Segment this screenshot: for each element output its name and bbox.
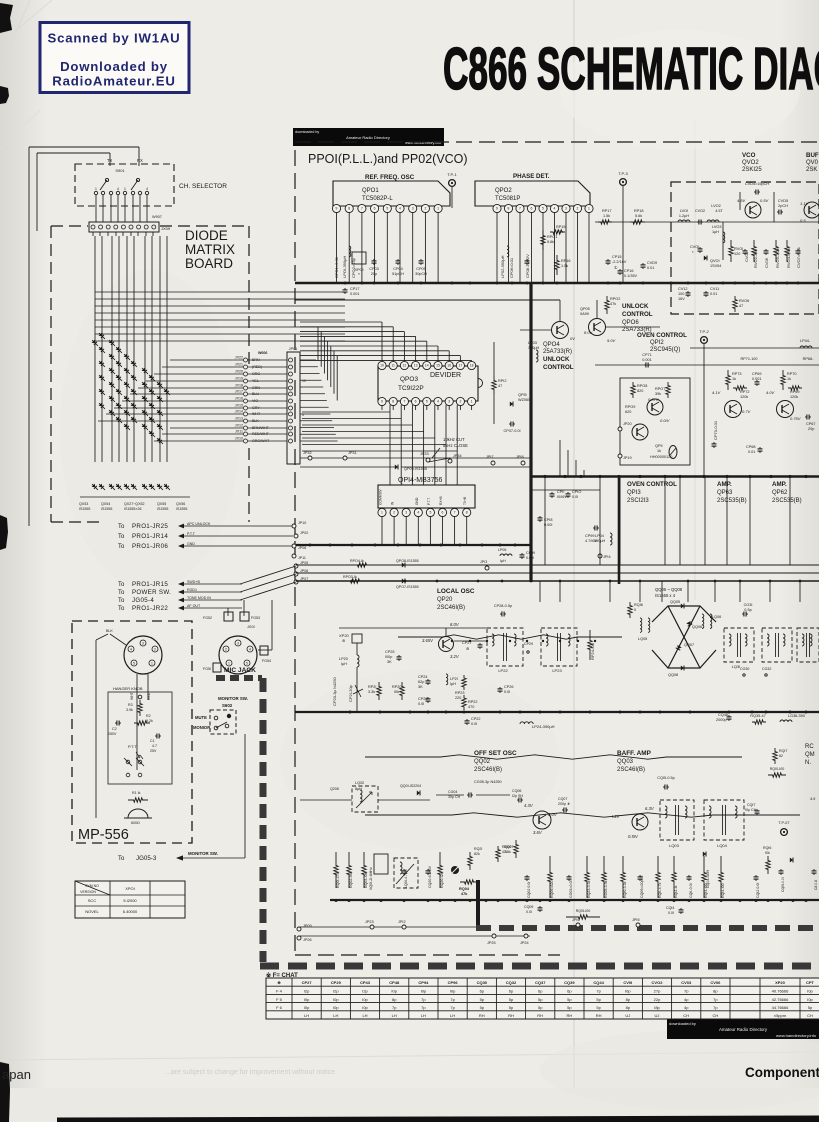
svg-text:GND: GND (415, 497, 419, 505)
svg-text:QX53: QX53 (79, 502, 88, 506)
svg-text:CV12: CV12 (678, 287, 688, 291)
svg-text:RPI2: RPI2 (498, 379, 506, 383)
svg-text:RQ23-3.3k: RQ23-3.3k (587, 880, 591, 898)
svg-text:Scanned by IW1AU: Scanned by IW1AU (48, 31, 181, 46)
svg-text:1: 1 (588, 207, 590, 211)
svg-text:RC: RC (805, 744, 814, 750)
svg-text:LH: LH (333, 1013, 338, 1018)
svg-text:QPII: QPII (655, 444, 663, 448)
svg-text:To: To (118, 534, 125, 540)
svg-text:C1: C1 (150, 739, 155, 743)
svg-text:2: 2 (154, 647, 156, 651)
svg-text:QQ05 ~ QQ08: QQ05 ~ QQ08 (655, 587, 683, 592)
svg-text:2: 2 (424, 207, 426, 211)
svg-text:4: 4 (437, 400, 439, 404)
svg-text:0.0I: 0.0I (471, 722, 477, 726)
svg-text:RP24-I00: RP24-I00 (590, 642, 595, 660)
svg-text:390μH: 390μH (528, 346, 540, 350)
svg-text:2SC46I(B): 2SC46I(B) (437, 605, 465, 611)
svg-text:47: 47 (739, 304, 743, 308)
svg-text:47k: 47k (502, 850, 508, 854)
svg-text:MONITOR SW.: MONITOR SW. (188, 851, 218, 856)
svg-text:FG53: FG53 (251, 616, 260, 620)
svg-text:To: To (118, 590, 125, 596)
svg-text:CQ30: CQ30 (477, 980, 488, 985)
svg-text:20p: 20p (371, 272, 377, 276)
svg-text:CH. SELECTOR: CH. SELECTOR (179, 183, 227, 190)
svg-text:CH: CH (683, 1013, 689, 1018)
svg-text:1k: 1k (732, 377, 736, 381)
svg-text:⊛: ⊛ (466, 647, 469, 651)
svg-text:51pCH: 51pCH (392, 272, 404, 276)
svg-text:To: To (118, 856, 125, 862)
svg-text:CP69: CP69 (752, 372, 762, 376)
svg-text:0.0I: 0.0I (572, 495, 578, 499)
svg-text:1.1V: 1.1V (800, 201, 809, 206)
svg-text:QV0: QV0 (806, 160, 819, 166)
svg-text:8: 8 (508, 207, 510, 211)
svg-text:CP67: CP67 (806, 422, 816, 426)
svg-text:BAFF. AMP: BAFF. AMP (617, 750, 652, 757)
svg-text:JPI3: JPI3 (480, 560, 487, 564)
svg-text:BOARD: BOARD (185, 256, 233, 271)
svg-text:RP22: RP22 (468, 700, 478, 704)
svg-text:JPI6: JPI6 (572, 918, 580, 922)
svg-text:3.0V: 3.0V (548, 812, 558, 817)
svg-text:CVD9: CVD9 (647, 261, 657, 265)
svg-text:CP22: CP22 (471, 717, 481, 721)
svg-text:4: 4 (417, 511, 419, 515)
svg-text:5p: 5p (596, 1005, 601, 1010)
svg-text:P.T.T: P.T.T (187, 532, 196, 536)
svg-text:0.01: 0.01 (647, 266, 654, 270)
svg-text:6p: 6p (538, 989, 543, 994)
svg-text:4.7: 4.7 (152, 744, 157, 748)
svg-text:R1 Ik: R1 Ik (132, 791, 141, 795)
svg-text:CVD5: CVD5 (778, 199, 788, 203)
svg-text:1SV54: 1SV54 (710, 264, 721, 268)
svg-text:CQI2 0.0I: CQI2 0.0I (756, 883, 760, 898)
svg-text:CP05: CP05 (416, 267, 426, 271)
svg-text:JP23: JP23 (365, 920, 374, 924)
svg-text:RP23: RP23 (455, 691, 465, 695)
svg-text:OVEN CONTROL: OVEN CONTROL (637, 332, 687, 339)
svg-text:I00p: I00p (385, 655, 392, 659)
svg-text:IS1555: IS1555 (176, 507, 187, 511)
svg-text:1: 1 (381, 511, 383, 515)
svg-text:QQ06: QQ06 (692, 625, 702, 629)
svg-text:IμH: IμH (341, 662, 347, 666)
svg-text:QPO2: QPO2 (495, 188, 512, 194)
svg-text:CP2I-20p: CP2I-20p (348, 684, 353, 702)
svg-text:820: 820 (637, 389, 643, 393)
svg-text:R3: R3 (128, 703, 133, 707)
svg-text:47k: 47k (610, 302, 616, 306)
svg-text:5: 5 (426, 400, 428, 404)
svg-text:...are subject to change for i: ...are subject to change for improvement… (165, 1069, 337, 1076)
svg-text:LH: LH (304, 1013, 309, 1018)
svg-text:To: To (118, 544, 125, 550)
svg-text:CQ09=I20p ⑧: CQ09=I20p ⑧ (640, 875, 644, 898)
svg-text:JP26: JP26 (303, 938, 312, 942)
svg-text:RH: RH (567, 1013, 573, 1018)
svg-text:CP94: CP94 (418, 980, 429, 985)
svg-text:3: 3 (237, 641, 239, 645)
svg-text:2: 2 (225, 647, 227, 651)
svg-text:RP71-100: RP71-100 (740, 357, 757, 361)
svg-text:I0k: I0k (765, 851, 770, 855)
svg-text:WZ065: WZ065 (518, 398, 530, 402)
svg-text:LVO2: LVO2 (711, 204, 720, 208)
svg-text:P.T.T: P.T.T (128, 744, 137, 749)
svg-text:CG3I: CG3I (744, 603, 753, 607)
svg-text:CP17: CP17 (350, 287, 360, 291)
svg-text:I0p: I0p (625, 989, 631, 994)
svg-text:1: 1 (228, 661, 230, 665)
svg-text:BUF: BUF (806, 152, 819, 159)
svg-text:CP26: CP26 (504, 685, 514, 689)
svg-text:8: 8 (392, 400, 394, 404)
svg-text:DIODE: DIODE (185, 228, 228, 243)
svg-text:8.2k: 8.2k (146, 719, 153, 723)
svg-text:HH00000120: HH00000120 (650, 455, 672, 459)
svg-text:17: 17 (459, 364, 463, 368)
svg-text:COMM BV: COMM BV (379, 488, 383, 505)
svg-text:CP04: CP04 (393, 267, 403, 271)
svg-text:2SC46I(B): 2SC46I(B) (617, 767, 645, 773)
svg-text:82k: 82k (474, 852, 480, 856)
svg-text:QQ08: QQ08 (668, 673, 678, 677)
svg-text:JP10: JP10 (298, 521, 306, 525)
svg-text:I/50V: I/50V (108, 732, 117, 736)
svg-text:3: 3 (405, 511, 407, 515)
svg-text:I0p: I0p (391, 989, 397, 994)
svg-text:5p: 5p (538, 1005, 543, 1010)
svg-text:3.6V: 3.6V (533, 830, 543, 835)
svg-text:CG05-3p N4250: CG05-3p N4250 (474, 780, 502, 784)
svg-text:14: 14 (425, 364, 429, 368)
svg-text:18: 18 (470, 364, 474, 368)
svg-text:JX11: JX11 (235, 430, 243, 434)
svg-text:5.I2000: 5.I2000 (123, 898, 137, 903)
svg-text:PRO1-JR15: PRO1-JR15 (132, 581, 168, 588)
svg-text:I0p: I0p (333, 1005, 339, 1010)
svg-text:JP31: JP31 (348, 451, 357, 455)
svg-text:RQII-4.7k: RQII-4.7k (658, 882, 662, 898)
svg-text:0.0I: 0.0I (418, 702, 424, 706)
svg-text:CH: CH (713, 1013, 719, 1018)
svg-text:6: 6 (442, 511, 444, 515)
svg-text:HANGER KNOB: HANGER KNOB (113, 686, 143, 691)
svg-text:LP04: LP04 (595, 534, 604, 538)
svg-text:QPO1: QPO1 (362, 188, 379, 194)
svg-text:4: 4 (117, 187, 119, 191)
svg-text:MATRIX: MATRIX (185, 242, 235, 257)
svg-text:220: 220 (455, 696, 461, 700)
svg-text:QX27~QX52: QX27~QX52 (124, 502, 144, 506)
svg-text:Downloaded by: Downloaded by (60, 59, 168, 74)
svg-text:22p: 22p (654, 997, 661, 1002)
svg-text:-2.2/16V: -2.2/16V (612, 260, 627, 264)
svg-text:QP05: QP05 (580, 307, 590, 311)
svg-text:RP18: RP18 (634, 209, 644, 213)
svg-text:UNLOCK: UNLOCK (622, 303, 649, 310)
svg-text:JX19: JX19 (235, 377, 243, 381)
svg-text:JX18: JX18 (235, 384, 243, 388)
svg-text:CQ39: CQ39 (564, 980, 575, 985)
svg-text:QX56: QX56 (176, 502, 185, 506)
svg-text:QX55: QX55 (157, 502, 166, 506)
svg-text:JX13: JX13 (235, 417, 243, 421)
svg-text:LVOI: LVOI (680, 209, 688, 213)
svg-text:0.01: 0.01 (710, 292, 717, 296)
svg-text:CPT: CPT (806, 980, 815, 985)
svg-text:3: 3 (412, 207, 414, 211)
svg-text:I0p: I0p (807, 997, 813, 1002)
svg-text:RPO7: RPO7 (655, 387, 665, 391)
svg-text:RQI6: RQI6 (763, 846, 771, 850)
svg-text:RH: RH (508, 1013, 514, 1018)
svg-text:1: 1 (151, 661, 153, 665)
svg-text:downloaded by: downloaded by (669, 1021, 696, 1026)
svg-text:8p: 8p (713, 989, 718, 994)
svg-text:IS1555: IS1555 (157, 507, 168, 511)
svg-text:JX16: JX16 (235, 397, 243, 401)
svg-text:CQ20-6.8/I6V: CQ20-6.8/I6V (428, 865, 432, 888)
svg-text:XP20: XP20 (339, 633, 350, 638)
svg-text:RQ05: RQ05 (502, 845, 511, 849)
svg-text:1k: 1k (657, 449, 661, 453)
svg-text:PPOI(P.L.L.)and PP02(VCO): PPOI(P.L.L.)and PP02(VCO) (308, 152, 468, 166)
svg-text:CP27: CP27 (302, 980, 313, 985)
svg-text:2SKI25: 2SKI25 (742, 167, 762, 173)
svg-text:7p: 7p (684, 989, 689, 994)
svg-text:①: ① (614, 266, 618, 270)
svg-text:TONE MOD IN: TONE MOD IN (187, 596, 211, 600)
svg-text:CV0I: CV0I (623, 980, 632, 985)
svg-text:RH: RH (537, 1013, 543, 1018)
svg-text:CP25: CP25 (385, 650, 395, 654)
svg-text:6: 6 (415, 400, 417, 404)
svg-text:LP44-: LP44- (800, 339, 811, 343)
svg-text:LPOI-390μH: LPOI-390μH (342, 256, 347, 278)
svg-text:AMP.: AMP. (772, 481, 787, 488)
svg-text:SWD+B: SWD+B (187, 580, 200, 584)
svg-text:QVOI: QVOI (710, 259, 720, 263)
svg-text:42.76666: 42.76666 (772, 997, 789, 1002)
svg-text:5: 5 (386, 207, 388, 211)
svg-text:12: 12 (403, 364, 407, 368)
svg-text:5: 5 (542, 207, 544, 211)
svg-text:SYM NO: SYM NO (85, 884, 99, 888)
svg-text:CG30: CG30 (740, 667, 749, 671)
svg-text:120k: 120k (740, 395, 748, 399)
svg-text:CQI4: CQI4 (666, 906, 674, 910)
svg-text:QQ05: QQ05 (670, 600, 680, 604)
svg-text:100: 100 (678, 292, 684, 296)
svg-text:RQI0-I00: RQI0-I00 (770, 767, 785, 771)
svg-text:0: 0 (634, 608, 636, 612)
svg-text:82: 82 (779, 754, 783, 758)
svg-text:C866 SCHEMATIC DIAG: C866 SCHEMATIC DIAG (443, 36, 819, 102)
svg-text:QPO3: QPO3 (400, 376, 418, 383)
svg-text:RQ0I-47k: RQ0I-47k (336, 872, 340, 888)
svg-text:RVOI: RVOI (734, 247, 743, 251)
svg-text:LH: LH (362, 1013, 367, 1018)
svg-text:5p: 5p (538, 997, 543, 1002)
svg-text:UNLOCK: UNLOCK (543, 356, 570, 363)
svg-text:JP24: JP24 (520, 941, 529, 945)
svg-text:9: 9 (496, 207, 498, 211)
svg-text:5p: 5p (596, 997, 601, 1002)
svg-text:LP2I: LP2I (450, 677, 458, 681)
svg-text:LOCAL OSC: LOCAL OSC (437, 588, 475, 595)
svg-text:13: 13 (414, 364, 418, 368)
svg-text:MONITOR SW.: MONITOR SW. (218, 696, 248, 701)
svg-text:RP15: RP15 (556, 225, 566, 229)
svg-text:QQ07: QQ07 (684, 643, 694, 647)
svg-text:30p CH: 30p CH (448, 795, 461, 799)
svg-text:FG52: FG52 (203, 616, 212, 620)
svg-text:200p ⑧: 200p ⑧ (558, 802, 571, 806)
svg-text:LP02-390μH: LP02-390μH (500, 255, 505, 278)
svg-text:LQ05: LQ05 (638, 637, 647, 641)
svg-text:8: 8 (348, 207, 350, 211)
svg-text:JP32: JP32 (303, 451, 312, 455)
svg-text:RQI6: RQI6 (634, 603, 643, 607)
svg-text:RQI5-I00: RQI5-I00 (576, 909, 591, 913)
svg-text:JP33: JP33 (420, 452, 429, 456)
svg-text:JPI7: JPI7 (486, 455, 494, 459)
svg-text:RadioAmateur.EU: RadioAmateur.EU (52, 74, 175, 89)
svg-text:CONTROL: CONTROL (622, 311, 653, 318)
svg-text:2SC535(B): 2SC535(B) (717, 498, 747, 504)
svg-text:10: 10 (302, 379, 306, 383)
svg-text:RQ20-I2k: RQ20-I2k (440, 872, 444, 888)
svg-text:47: 47 (498, 384, 502, 388)
svg-text:I0p: I0p (807, 989, 813, 994)
svg-text:RQI7: RQI7 (779, 749, 787, 753)
svg-text:JP09: JP09 (303, 924, 312, 928)
svg-text:2SC46I(B): 2SC46I(B) (474, 767, 502, 773)
svg-text:To: To (118, 606, 125, 612)
svg-text:RP17: RP17 (602, 209, 612, 213)
svg-text:1μH: 1μH (712, 230, 719, 234)
svg-text:To: To (118, 582, 125, 588)
svg-text:2: 2 (393, 511, 395, 515)
svg-text:I0p: I0p (362, 997, 368, 1002)
svg-text:4.5V: 4.5V (737, 198, 746, 203)
svg-text:IS1555 x 4: IS1555 x 4 (655, 593, 676, 598)
svg-text:0.001: 0.001 (642, 358, 652, 362)
svg-text:4p: 4p (684, 997, 689, 1002)
svg-text:JX20: JX20 (235, 370, 243, 374)
svg-text:MIC JACK: MIC JACK (224, 667, 256, 674)
svg-text:JG05-4: JG05-4 (132, 597, 154, 604)
svg-text:CVD4=15pCH: CVD4=15pCH (745, 182, 769, 186)
svg-text:7: 7 (454, 511, 456, 515)
svg-text:RP68-: RP68- (803, 357, 814, 361)
svg-text:QM: QM (805, 752, 815, 758)
svg-text:CQ32: CQ32 (506, 980, 517, 985)
svg-text:CVOI: CVOI (690, 245, 699, 249)
svg-text:3: 3 (142, 641, 144, 645)
svg-text:LP03: LP03 (528, 341, 537, 345)
svg-text:PHASE DET.: PHASE DET. (513, 173, 550, 180)
svg-text:CQ02 0.0I: CQ02 0.0I (527, 882, 531, 898)
svg-text:5p: 5p (480, 1005, 485, 1010)
svg-text:WHT: WHT (130, 692, 134, 700)
svg-text:IμH: IμH (450, 682, 456, 686)
svg-text:4: 4 (554, 207, 556, 211)
svg-text:LP20: LP20 (339, 657, 348, 661)
svg-text:CP16: CP16 (624, 269, 634, 273)
svg-text:16V: 16V (678, 297, 685, 301)
svg-text:7p: 7p (450, 997, 455, 1002)
svg-text:GND: GND (187, 542, 195, 546)
svg-text:7p: 7p (450, 1005, 455, 1010)
svg-text:UJ: UJ (625, 1013, 630, 1018)
svg-text:7p: 7p (421, 997, 426, 1002)
svg-text:5p: 5p (567, 1005, 572, 1010)
svg-text:CONTROL: CONTROL (543, 364, 574, 371)
svg-text:To: To (118, 598, 125, 604)
svg-text:GQ04-0A99: GQ04-0A99 (706, 870, 710, 888)
svg-text:JPI5: JPI5 (632, 918, 640, 922)
svg-text:QQ03: QQ03 (617, 759, 634, 765)
svg-text:CV06: CV06 (764, 257, 769, 268)
svg-text:F 4: F 4 (276, 989, 283, 994)
svg-text:6p: 6p (480, 989, 485, 994)
svg-text:I2p: I2p (362, 989, 368, 994)
svg-text:JP05: JP05 (300, 561, 308, 565)
svg-text:MUTE: MUTE (195, 715, 207, 720)
svg-text:1: 1 (95, 187, 97, 191)
svg-text:CQ37: CQ37 (535, 980, 546, 985)
svg-text:APC UNLOCK: APC UNLOCK (187, 522, 211, 526)
svg-text:JX14: JX14 (235, 410, 243, 414)
svg-text:CP99: CP99 (585, 534, 595, 538)
svg-text:RH: RH (596, 1013, 602, 1018)
svg-text:8p: 8p (392, 997, 397, 1002)
svg-text:25A733(R): 25A733(R) (543, 349, 572, 355)
svg-text:1.2μH: 1.2μH (679, 214, 689, 218)
svg-text:CPIO: CPIO (572, 490, 581, 494)
svg-text:VERSION: VERSION (80, 890, 96, 894)
svg-text:RPO1: RPO1 (547, 235, 557, 239)
svg-text:3.2V: 3.2V (450, 654, 460, 659)
svg-text:4.9: 4.9 (810, 797, 816, 801)
svg-text:16: 16 (447, 364, 451, 368)
svg-text:2000p: 2000p (716, 718, 727, 722)
svg-text:AF OUT: AF OUT (187, 604, 201, 608)
svg-text:QPI3: QPI3 (627, 490, 641, 496)
svg-text:7: 7 (361, 207, 363, 211)
svg-text:I0p: I0p (304, 997, 310, 1002)
svg-text:CP03: CP03 (369, 267, 379, 271)
svg-text:PRO1-JR22: PRO1-JR22 (132, 605, 168, 612)
svg-text:600Ω: 600Ω (131, 821, 140, 825)
svg-text:8: 8 (466, 511, 468, 515)
svg-text:4: 4 (146, 187, 148, 191)
svg-text:apan: apan (2, 1067, 31, 1082)
svg-text:I8p: I8p (654, 1005, 660, 1010)
svg-text:QQ02: QQ02 (474, 759, 491, 765)
svg-text:5: 5 (429, 511, 431, 515)
svg-text:RP16: RP16 (561, 259, 571, 263)
svg-text:JX10: JX10 (235, 437, 243, 441)
svg-text:OFF SET OSC: OFF SET OSC (474, 750, 517, 757)
